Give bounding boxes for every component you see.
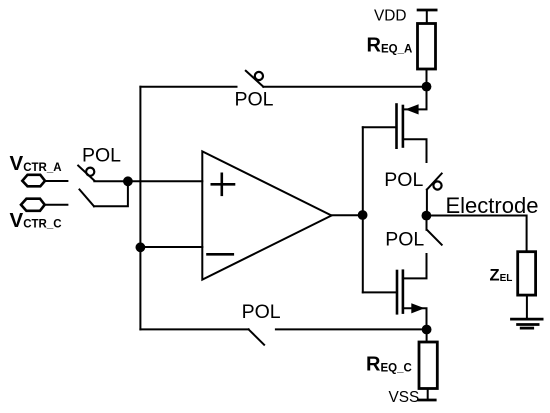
svg-text:Electrode: Electrode [446, 193, 539, 218]
svg-text:POL: POL [235, 89, 274, 111]
svg-text:POL: POL [385, 229, 424, 251]
svg-text:VDD: VDD [374, 8, 407, 25]
svg-text:POL: POL [82, 145, 121, 167]
svg-text:POL: POL [242, 301, 281, 323]
svg-text:VSS: VSS [389, 389, 420, 406]
svg-text:POL: POL [384, 169, 423, 191]
